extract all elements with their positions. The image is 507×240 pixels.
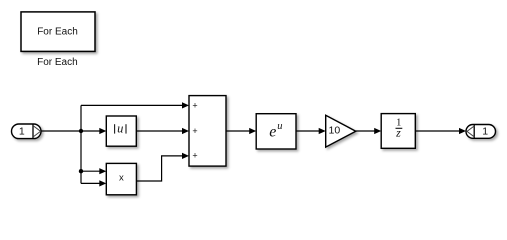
- svg-text:z: z: [395, 125, 401, 139]
- svg-text:1: 1: [19, 125, 25, 137]
- outport block Out1: [466, 125, 496, 139]
- wire unit delay output to outport: [415, 128, 466, 134]
- wire branch to sum input 1: [81, 102, 189, 108]
- inport block In1: [12, 124, 42, 139]
- wire product output to sum input 3: [136, 153, 189, 181]
- wire sum output to exp: [226, 128, 256, 134]
- product block: [106, 163, 136, 194]
- svg-text:+: +: [192, 101, 197, 111]
- svg-text:x: x: [119, 173, 124, 184]
- wire exp output to gain: [296, 128, 326, 134]
- svg-text:u: u: [277, 121, 282, 132]
- wire to product input 2: [81, 180, 106, 186]
- Abs value label |u|: [115, 121, 126, 135]
- wire to product input 1: [81, 168, 106, 174]
- junction node A (main branch): [79, 129, 83, 133]
- For Each subsystem block: [21, 12, 95, 52]
- gain block: [326, 115, 356, 147]
- sum block: [189, 96, 226, 167]
- junction node B (lower branch): [79, 169, 83, 173]
- vertical branch wire: [80, 105, 82, 183]
- wire Abs output to sum input 2: [136, 128, 189, 134]
- wire inport to Abs input: [41, 130, 100, 132]
- svg-text:u: u: [117, 121, 123, 135]
- Abs block: [106, 116, 136, 146]
- svg-text:For Each: For Each: [37, 27, 78, 38]
- unit delay block: [381, 114, 415, 149]
- svg-text:For Each: For Each: [37, 57, 78, 68]
- svg-text:e: e: [269, 123, 276, 140]
- unit delay value label 1/z: [395, 117, 402, 139]
- svg-text:1: 1: [482, 126, 488, 138]
- svg-text:+: +: [192, 126, 197, 136]
- svg-text:+: +: [192, 151, 197, 161]
- wire gain output to unit delay: [356, 128, 381, 134]
- exp math function block: [256, 114, 296, 149]
- svg-text:10: 10: [329, 124, 341, 136]
- exp value label e^u: [269, 121, 282, 140]
- arrowhead into Abs: [99, 128, 106, 134]
